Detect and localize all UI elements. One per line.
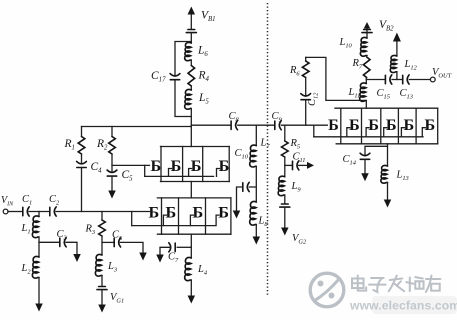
wire C6-gnd bbox=[120, 242, 143, 252]
wire stage2 vertical lead 4 bbox=[397, 108, 399, 144]
resistor R5 bbox=[281, 141, 288, 157]
capacitor C4 bbox=[77, 161, 87, 167]
ground arrow C7 bbox=[156, 255, 164, 263]
wire gate feed stage1 top row bbox=[112, 164, 150, 166]
svg-text:VB1: VB1 bbox=[201, 10, 216, 24]
svg-text:Б: Б bbox=[166, 204, 177, 222]
wire stage2 vertical lead 3 bbox=[380, 108, 382, 144]
wire L11 to drain bus bbox=[365, 101, 367, 109]
label L7 bbox=[260, 138, 271, 151]
label C15 bbox=[377, 88, 390, 101]
wire row2 gate bus riser bbox=[131, 212, 133, 226]
wire C7 branch bbox=[177, 246, 191, 248]
capacitor C15 bbox=[385, 75, 391, 84]
inductor L13 bbox=[381, 165, 388, 183]
svg-text:C8: C8 bbox=[229, 111, 240, 124]
wire gate hook bbox=[384, 128, 387, 137]
capacitor C13 bbox=[403, 75, 409, 84]
wire input bbox=[8, 211, 22, 213]
svg-text:R1: R1 bbox=[64, 138, 75, 152]
svg-text:L3: L3 bbox=[107, 261, 117, 274]
svg-text:R5: R5 bbox=[290, 138, 301, 151]
resistor R1 bbox=[78, 137, 85, 155]
wire R6 stub bbox=[305, 57, 307, 61]
inductor L4 bbox=[185, 257, 192, 280]
wire stage2 source bus bbox=[336, 143, 438, 145]
supply feed arrow top right bbox=[364, 22, 371, 33]
capacitor C1 bbox=[23, 207, 29, 216]
label C8 bbox=[229, 111, 240, 124]
svg-text:C11: C11 bbox=[293, 152, 306, 165]
capacitor C11 bbox=[293, 161, 299, 170]
wire row2 vertical lead 3 bbox=[205, 198, 207, 234]
svg-text:C7: C7 bbox=[168, 252, 179, 265]
wire row1 source to row2 drain bbox=[190, 182, 192, 198]
ground arrow below C5 bbox=[108, 191, 116, 199]
svg-text:Б: Б bbox=[191, 157, 202, 175]
stage separator dotted line bbox=[267, 3, 269, 297]
wire C15-C13 bbox=[392, 79, 402, 81]
svg-text:L7: L7 bbox=[260, 138, 271, 151]
svg-text:C12: C12 bbox=[307, 92, 320, 106]
label C4 bbox=[91, 161, 103, 175]
inductor L1 bbox=[32, 216, 39, 238]
svg-text:L6: L6 bbox=[197, 45, 208, 59]
label R2 bbox=[96, 138, 108, 152]
svg-text:www.elecfans.com: www.elecfans.com bbox=[349, 299, 457, 313]
label R7 bbox=[352, 58, 363, 71]
wire R4-L5 bbox=[190, 86, 192, 90]
label C6 bbox=[112, 230, 123, 243]
wire gate hook bbox=[216, 215, 219, 226]
wire L6-R4 bbox=[190, 60, 192, 66]
wire C7-gnd bbox=[160, 247, 171, 254]
label L10 bbox=[339, 37, 353, 50]
supply V_G2 arrow bbox=[281, 228, 289, 236]
svg-text:R7: R7 bbox=[352, 58, 363, 71]
wire row2 source down bbox=[190, 234, 192, 247]
wire drain bus to C8 bbox=[191, 125, 230, 126]
wire L5 to bus bbox=[190, 109, 192, 127]
wire L1 tap bbox=[38, 212, 40, 217]
capacitor C7 bbox=[169, 243, 175, 252]
wire C4 to input line bbox=[81, 168, 83, 212]
transistor M1b bbox=[171, 157, 182, 175]
output terminal bbox=[430, 77, 435, 82]
wire row1 gate bus riser bbox=[144, 165, 146, 176]
wire gate hook bbox=[366, 128, 369, 137]
svg-text:VG1: VG1 bbox=[110, 292, 124, 305]
capacitor C10 bbox=[243, 182, 249, 191]
svg-text:L1: L1 bbox=[21, 223, 31, 236]
label L11 bbox=[348, 87, 361, 100]
label C10 bbox=[235, 148, 249, 161]
feed bars V_G1 bbox=[97, 287, 107, 290]
label L6 bbox=[197, 45, 208, 59]
svg-text:C14: C14 bbox=[343, 154, 357, 167]
label V_G1 bbox=[110, 292, 124, 305]
transistor M3c bbox=[368, 116, 379, 134]
svg-text:C5: C5 bbox=[122, 169, 134, 183]
ground arrow L4 bbox=[188, 296, 196, 304]
wire output line bbox=[366, 79, 385, 81]
ground arrow C3 bbox=[73, 254, 81, 262]
capacitor C3 bbox=[60, 238, 66, 247]
capacitor C9 bbox=[275, 121, 281, 130]
wire R5 node bbox=[284, 157, 286, 177]
inductor L7 bbox=[250, 145, 257, 167]
wire L2-gnd bbox=[38, 278, 40, 304]
wire R3 tap bbox=[101, 212, 103, 221]
svg-text:L8: L8 bbox=[258, 216, 269, 229]
capacitor C17 bbox=[170, 74, 180, 80]
wire C12 to gate line bbox=[305, 100, 307, 126]
inductor L9 bbox=[278, 176, 285, 196]
wire R6-C12 bbox=[305, 78, 307, 96]
inductor L12 bbox=[390, 55, 397, 72]
wire R2 node bbox=[111, 154, 113, 172]
wire gate hook bbox=[163, 215, 166, 226]
label V_B2 bbox=[379, 19, 394, 33]
wire to V_G2 bbox=[284, 207, 286, 227]
wire drain chain to row1 bbox=[190, 127, 192, 147]
svg-text:C10: C10 bbox=[235, 148, 249, 161]
wire row1 vertical lead 1 bbox=[160, 147, 162, 182]
wire C5-gnd bbox=[111, 176, 113, 190]
wire gate hook bbox=[169, 169, 172, 177]
wire C10 branch bbox=[249, 186, 256, 188]
transistor M2b bbox=[166, 204, 177, 222]
wire stage2 drain bus bbox=[335, 107, 438, 109]
wire L13 tap bbox=[387, 146, 389, 166]
svg-text:Б: Б bbox=[151, 157, 162, 175]
svg-text:C15: C15 bbox=[377, 88, 390, 101]
transistor M1a bbox=[151, 157, 162, 175]
svg-text:C6: C6 bbox=[112, 230, 123, 243]
label C17 bbox=[151, 70, 166, 84]
svg-text:L10: L10 bbox=[339, 37, 353, 50]
wire L13-gnd bbox=[387, 183, 389, 200]
wire gate hook bbox=[190, 215, 193, 226]
capacitor C6 bbox=[114, 238, 120, 247]
wire C3 branch bbox=[39, 241, 59, 243]
wire stage2 source drop bbox=[365, 144, 388, 156]
capacitor C17 branch wires bbox=[175, 42, 191, 117]
svg-text:R6: R6 bbox=[289, 65, 300, 78]
wire L1-L2 node bbox=[38, 237, 40, 257]
svg-text:L9: L9 bbox=[291, 181, 302, 194]
label L9 bbox=[291, 181, 302, 194]
wire gate hook bbox=[217, 169, 220, 177]
label L4 bbox=[197, 264, 208, 277]
label L1 bbox=[21, 223, 31, 236]
feed bars top right bbox=[362, 30, 372, 33]
inductor L10 bbox=[360, 37, 367, 56]
svg-text:Б: Б bbox=[349, 116, 360, 134]
wire C13 to Vout bbox=[409, 79, 430, 81]
ground arrow C6 bbox=[139, 253, 147, 261]
label R4 bbox=[198, 70, 210, 84]
wire row1 gate bus bbox=[145, 175, 214, 177]
label L3 bbox=[107, 261, 117, 274]
ground arrow C14 bbox=[361, 173, 369, 181]
wire L7-L8 bbox=[255, 166, 257, 202]
wire row2 gate bus bbox=[132, 225, 215, 227]
wire C11-gnd bbox=[299, 164, 307, 166]
inductor L11 bbox=[360, 83, 367, 101]
svg-text:Б: Б bbox=[171, 157, 182, 175]
svg-text:C2: C2 bbox=[49, 194, 60, 207]
svg-text:L12: L12 bbox=[404, 59, 418, 72]
svg-text:R4: R4 bbox=[198, 70, 210, 84]
transistor M2a bbox=[148, 204, 159, 222]
transistor M2c bbox=[193, 204, 204, 222]
wire stage1 row1 source bus bbox=[161, 181, 230, 183]
resistor R4 bbox=[188, 66, 195, 87]
wire interstage branch bbox=[255, 125, 257, 145]
label R3 bbox=[85, 224, 96, 237]
label L2 bbox=[21, 263, 32, 276]
label R6 bbox=[289, 65, 300, 78]
wire stage1 row2 source bus bbox=[157, 233, 231, 235]
wire R5 tap bbox=[284, 125, 286, 141]
wire row2 vertical lead 4 bbox=[230, 198, 232, 234]
svg-text:C4: C4 bbox=[91, 161, 103, 175]
label C1 bbox=[22, 194, 32, 207]
svg-text:VIN: VIN bbox=[1, 195, 14, 208]
svg-text:VB2: VB2 bbox=[379, 19, 394, 33]
svg-text:C17: C17 bbox=[151, 70, 166, 84]
label V_OUT bbox=[432, 67, 452, 80]
wire L3-bars bbox=[101, 276, 103, 287]
label C7 bbox=[168, 252, 179, 265]
inductor L3 bbox=[95, 254, 102, 276]
wire C14-gnd bbox=[364, 159, 366, 173]
ground arrow C11 right bbox=[307, 162, 314, 169]
svg-text:Б: Б bbox=[404, 116, 415, 134]
resistor R2 bbox=[109, 137, 116, 155]
wire R6 top link bbox=[306, 57, 367, 100]
capacitor C12 bbox=[301, 94, 311, 100]
wire to V_G1 bbox=[101, 290, 103, 304]
transistor M1d bbox=[219, 157, 230, 175]
wire stage2 gate bus bbox=[314, 136, 423, 138]
svg-text:L13: L13 bbox=[396, 170, 409, 183]
watermark brand text bbox=[352, 276, 440, 293]
wire C8 to node bbox=[238, 124, 274, 126]
svg-text:R2: R2 bbox=[96, 138, 108, 152]
label C2 bbox=[49, 194, 60, 207]
label L5 bbox=[198, 92, 209, 106]
wire R1-C4 bbox=[81, 154, 83, 164]
wire C1-C2 bbox=[29, 211, 49, 213]
wire row1 vertical lead 4 bbox=[228, 147, 230, 182]
wire to L4 bbox=[190, 247, 192, 258]
svg-text:C3: C3 bbox=[57, 229, 67, 242]
label V_IN bbox=[1, 195, 14, 208]
label C5 bbox=[122, 169, 134, 183]
transistor M3a bbox=[328, 116, 339, 134]
wire gate hook bbox=[347, 128, 350, 137]
wire C11 branch bbox=[285, 164, 292, 166]
wire R7 node bbox=[365, 78, 367, 84]
transistor M3f bbox=[424, 116, 435, 134]
label C11 bbox=[293, 152, 306, 165]
svg-text:R3: R3 bbox=[85, 224, 96, 237]
watermark logo bbox=[310, 273, 344, 307]
wire stage2 gate riser bbox=[313, 125, 315, 137]
label C3 bbox=[57, 229, 67, 242]
supply V_B2 arrow bbox=[393, 33, 401, 57]
svg-text:Б: Б bbox=[219, 157, 230, 175]
transistor M1c bbox=[191, 157, 202, 175]
svg-text:VG2: VG2 bbox=[292, 233, 307, 246]
transistor M3d bbox=[386, 116, 397, 134]
wire L8-gnd bbox=[255, 225, 257, 237]
ground arrow C10 bbox=[233, 211, 241, 219]
svg-text:L4: L4 bbox=[197, 264, 208, 277]
inductor L6 bbox=[185, 42, 192, 60]
capacitor C5 bbox=[107, 170, 117, 176]
svg-text:Б: Б bbox=[386, 116, 397, 134]
inductor L5 bbox=[185, 89, 192, 109]
ground arrow L2 bbox=[35, 304, 43, 312]
feed bars V_G2 bbox=[280, 204, 290, 207]
wire first-stage bias bus bbox=[82, 126, 192, 128]
wire L12 to output line bbox=[396, 72, 398, 80]
wire input line to gates bbox=[56, 211, 150, 213]
inductor L8 bbox=[250, 201, 257, 225]
transistor M3e bbox=[404, 116, 415, 134]
wire stage1 row2 drain bus bbox=[157, 197, 231, 199]
ground arrow L13 bbox=[384, 200, 392, 208]
wire C6 branch bbox=[102, 241, 114, 243]
wire C3-gnd bbox=[66, 242, 77, 254]
svg-text:VOUT: VOUT bbox=[432, 67, 452, 80]
wire gate hook bbox=[401, 128, 404, 137]
watermark white box bbox=[372, 296, 457, 314]
capacitor C2 bbox=[50, 207, 56, 216]
svg-text:Б: Б bbox=[368, 116, 379, 134]
wire C10-gnd bbox=[237, 187, 243, 211]
resistor R6 bbox=[302, 61, 309, 78]
wire stage2 vertical lead 2 bbox=[361, 108, 363, 144]
label C13 bbox=[400, 88, 413, 101]
wire stage2 vertical lead 1 bbox=[340, 108, 342, 144]
wire bus-R2 bbox=[111, 127, 113, 137]
wire row2 vertical lead 2 bbox=[178, 198, 180, 234]
svg-text:L5: L5 bbox=[198, 92, 209, 106]
wire stage1 row1 drain bus bbox=[161, 146, 230, 148]
transistor M3b bbox=[349, 116, 360, 134]
wire C9 to stage2 gates bbox=[282, 124, 328, 126]
supply V_B1 arrow bbox=[188, 7, 196, 30]
transistor M2d bbox=[218, 204, 229, 222]
resistor R7 bbox=[363, 57, 370, 78]
label C12 bbox=[307, 92, 320, 106]
svg-text:C9: C9 bbox=[272, 111, 283, 124]
svg-text:L11: L11 bbox=[348, 87, 361, 100]
wire R3-node bbox=[101, 236, 103, 255]
svg-text:C1: C1 bbox=[22, 194, 32, 207]
label V_G2 bbox=[292, 233, 307, 246]
svg-text:Б: Б bbox=[148, 204, 159, 222]
svg-text:L2: L2 bbox=[21, 263, 32, 276]
wire gate hook bbox=[422, 128, 425, 137]
wire bus-R1 bbox=[81, 127, 83, 137]
wire gate hook bbox=[189, 169, 192, 177]
label V_B1 bbox=[201, 10, 216, 24]
watermark url text bbox=[349, 299, 457, 313]
wire to L10 bbox=[366, 33, 368, 38]
label C14 bbox=[343, 154, 357, 167]
svg-text:C13: C13 bbox=[400, 88, 413, 101]
input terminal bbox=[3, 209, 8, 214]
label R5 bbox=[290, 138, 301, 151]
wire stage2 vertical lead 5 bbox=[415, 108, 417, 144]
resistor R3 bbox=[99, 220, 106, 236]
supply V_G1 arrow bbox=[98, 305, 106, 313]
inductor L2 bbox=[32, 256, 39, 278]
wire row2 vertical lead 1 bbox=[161, 198, 163, 234]
label L8 bbox=[258, 216, 269, 229]
label C9 bbox=[272, 111, 283, 124]
svg-text:Б: Б bbox=[218, 204, 229, 222]
feed bars under V_B1 bbox=[186, 30, 196, 33]
svg-text:Б: Б bbox=[424, 116, 435, 134]
svg-text:Б: Б bbox=[328, 116, 339, 134]
wire stage2 vertical lead 6 bbox=[437, 108, 439, 144]
wire L9-bars bbox=[284, 195, 286, 204]
wire L4-gnd bbox=[190, 280, 192, 296]
label R1 bbox=[64, 138, 75, 152]
capacitor C14 bbox=[360, 153, 370, 159]
capacitor C8 bbox=[231, 121, 237, 130]
svg-text:Б: Б bbox=[193, 204, 204, 222]
wire row1 vertical lead 2 bbox=[182, 147, 184, 182]
wire row1 vertical lead 3 bbox=[202, 147, 204, 182]
ground arrow L8 bbox=[253, 237, 260, 245]
label L13 bbox=[396, 170, 409, 183]
label L12 bbox=[404, 59, 418, 72]
wire VB1 to L6 bbox=[190, 33, 192, 43]
